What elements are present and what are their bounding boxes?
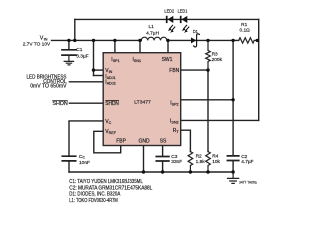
wire right edge riser	[258, 19, 260, 120]
wire ground bus	[69, 171, 233, 173]
svg-text:1.8k: 1.8k	[196, 159, 206, 165]
svg-text:C2: MURATA GRM31CR71E475KA88L: C2: MURATA GRM31CR71E475KA88L	[69, 185, 152, 191]
wire SW-to-Vout segment	[167, 39, 239, 41]
svg-text:LED2: LED2	[164, 9, 174, 15]
svg-text:L1: L1	[149, 24, 155, 30]
ground main	[228, 172, 239, 183]
wire C2 riser	[232, 40, 234, 155]
svg-text:SHDN: SHDN	[105, 101, 119, 107]
capacitor C3 plates	[156, 157, 169, 162]
svg-text:0mV TO 650mV: 0mV TO 650mV	[30, 84, 67, 90]
wire FBN	[181, 69, 208, 71]
wire IADJ2 control	[69, 81, 103, 83]
wire SS stub	[162, 146, 164, 157]
wire R4 top lead	[207, 70, 209, 151]
node dot ISN1	[138, 39, 141, 42]
capacitor C1 plates	[62, 50, 76, 55]
svg-text:D1: D1	[193, 29, 198, 35]
node dot rail x93	[92, 39, 95, 42]
svg-text:GND: GND	[139, 138, 151, 144]
wire GND stub	[143, 146, 145, 173]
svg-text:R4: R4	[212, 154, 218, 160]
diode D1 schottky	[191, 34, 200, 47]
svg-text:3.3µF: 3.3µF	[76, 53, 88, 59]
wire ISP2	[181, 99, 233, 101]
svg-text:D1: DIODES, INC. B320A: D1: DIODES, INC. B320A	[69, 192, 121, 198]
node dot bus C2	[231, 170, 234, 173]
wire VIN pin riser	[93, 40, 95, 75]
node dot R1 right	[256, 39, 259, 42]
node dot C2 top	[231, 39, 234, 42]
svg-text:LT3477: LT3477	[134, 100, 151, 106]
wire SHDN	[69, 102, 103, 104]
wire CC to bus	[68, 161, 70, 172]
wire IADJ1 pin	[94, 75, 104, 77]
resistor R1	[239, 38, 259, 43]
svg-text:33nF: 33nF	[171, 159, 182, 165]
svg-text:4.7µH: 4.7µH	[146, 30, 159, 36]
svg-text:4.7µF: 4.7µF	[241, 159, 253, 165]
wire C2 to bus	[232, 161, 234, 172]
capacitor C2 plates	[227, 156, 238, 161]
svg-text:R2: R2	[196, 154, 202, 160]
node dot R3 top	[206, 39, 209, 42]
resistor R2	[188, 152, 193, 173]
node dot C1 tap	[67, 39, 70, 42]
inductor L1	[141, 37, 167, 40]
node dot SW1	[166, 39, 169, 42]
svg-text:C1: TAIYO YUDEN LMK316BJ335ML: C1: TAIYO YUDEN LMK316BJ335ML	[69, 179, 143, 185]
wire ISN2	[181, 119, 259, 121]
svg-text:10k: 10k	[212, 159, 220, 165]
node dot ISP1	[113, 39, 116, 42]
svg-text:FBP: FBP	[116, 138, 126, 144]
svg-text:C2: C2	[241, 154, 247, 160]
capacitor CC plates	[62, 156, 75, 161]
capacitor C1 lead	[68, 40, 70, 49]
LED1	[181, 16, 190, 33]
svg-text:IN: IN	[44, 37, 48, 42]
wire VIN pin	[94, 69, 104, 71]
node dot bus GND	[142, 170, 145, 173]
svg-text:C1: C1	[76, 47, 82, 53]
svg-text:C3: C3	[171, 154, 177, 160]
wire top rail	[75, 18, 259, 20]
svg-text:200k: 200k	[212, 57, 223, 63]
svg-text:SW1: SW1	[162, 57, 173, 63]
LED2	[167, 16, 176, 33]
node dot bus R2	[189, 170, 192, 173]
svg-text:CC: CC	[79, 154, 85, 160]
node dot VIN pin tap	[92, 68, 95, 71]
svg-text:FBN: FBN	[169, 68, 179, 74]
svg-text:R1: R1	[241, 22, 247, 28]
wire VC	[69, 121, 103, 156]
svg-text:0.1Ω: 0.1Ω	[239, 27, 250, 33]
pin stub ISN1	[139, 40, 141, 52]
node dot top riser tap	[73, 39, 76, 42]
pin stub SW1	[167, 40, 169, 52]
resistor R4	[206, 152, 211, 173]
IC U1 LT3477 body	[103, 53, 181, 146]
svg-text:SHDN: SHDN	[52, 101, 68, 107]
svg-text:2.7V TO 10V: 2.7V TO 10V	[23, 41, 51, 47]
node dot FBN junction	[206, 68, 209, 71]
wire RT	[181, 130, 191, 151]
wire C3 to bus	[162, 161, 164, 172]
IC pin labels	[105, 57, 179, 144]
wire VREF-FBP loop	[94, 131, 121, 153]
svg-text:10nF: 10nF	[79, 160, 90, 166]
node dot bus C3	[161, 170, 164, 173]
node dot bus R4	[206, 170, 209, 173]
wire riser top-left	[74, 19, 76, 40]
svg-text:SS: SS	[160, 138, 167, 144]
svg-text:3477 TA06a: 3477 TA06a	[239, 180, 257, 184]
wire VIN rail	[52, 39, 142, 41]
svg-text:R3: R3	[212, 52, 218, 58]
node dot ISP2 junction	[231, 98, 234, 101]
resistor R3	[206, 40, 211, 70]
pin stub ISP1	[114, 40, 116, 52]
ground C1	[64, 55, 73, 65]
svg-text:L1: TOKO FDV0630-4R7M: L1: TOKO FDV0630-4R7M	[69, 198, 118, 204]
svg-text:LED1: LED1	[178, 9, 188, 15]
